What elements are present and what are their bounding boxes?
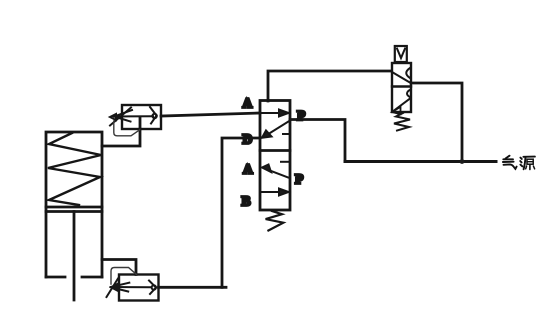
- 气: [506, 156, 510, 159]
- pilot valve manual actuator (push button): [395, 46, 407, 62]
- flow control valve V2 (one-way throttle, bottom) box: [119, 275, 159, 301]
- V1 throttle arrow (left arrowhead + diagonal): [110, 108, 132, 126]
- svg-text:A: A: [243, 162, 253, 177]
- svg-text:P: P: [295, 172, 303, 187]
- pilot valve position 2: blocked port hook: [407, 90, 411, 98]
- wire: V2 output to main valve port D: [159, 138, 261, 287]
- port label D: [243, 132, 253, 147]
- V2 check bypass loop: [111, 268, 137, 285]
- port label A (top): [243, 96, 253, 111]
- cylinder (spring-return) body: [46, 132, 102, 277]
- svg-text:B: B: [242, 194, 251, 209]
- pilot valve exhaust triangle: [392, 107, 401, 114]
- main valve position 2: P to A diagonal arrow: [262, 165, 288, 178]
- cylinder piston rod: [73, 212, 76, 301]
- port label B: [242, 194, 251, 209]
- main valve position 2: blocked port dash: [281, 161, 289, 163]
- main valve return spring: [266, 211, 284, 231]
- cylinder piston: [46, 207, 102, 212]
- wire: pilot valve output to main valve pilot port: [268, 71, 390, 101]
- pilot valve position 2: exhaust diagonal: [394, 99, 410, 111]
- wire: cylinder top port to flow valve V1 bottom port: [102, 129, 140, 146]
- V2 main flow line: [111, 286, 152, 288]
- V1 bottom port line: [139, 117, 142, 129]
- main directional valve body (two positions): [260, 101, 290, 211]
- port label A (middle): [243, 162, 253, 177]
- pilot valve return spring: [394, 113, 410, 131]
- V1 main flow line: [114, 115, 153, 117]
- V2 throttle arrow (left arrowhead + diagonal): [107, 279, 130, 298]
- air supply line: [345, 160, 496, 163]
- main valve position 1: A to P arrow: [260, 110, 289, 117]
- wire: main valve P to air supply: [290, 120, 345, 162]
- V1 check valve (ball and seat): [150, 107, 157, 124]
- main valve position 1: blocked port dash: [283, 133, 289, 135]
- air source label 气源 (drawn glyph strokes): [503, 156, 535, 170]
- junction dot: [460, 159, 465, 164]
- wire: pilot valve P port to air supply line: [411, 83, 462, 162]
- flow control valve V1 (one-way throttle, top) box: [122, 105, 161, 129]
- cylinder return spring: [48, 133, 101, 205]
- svg-text:A: A: [243, 96, 253, 111]
- port label P (top): [297, 108, 305, 123]
- main valve position 2: B arrow: [260, 189, 289, 196]
- wire: cylinder bottom port to flow valve V2: [102, 260, 136, 275]
- V1 check bypass loop: [114, 121, 140, 136]
- 源: [520, 158, 521, 159]
- wire: V1 output to main valve port A: [161, 113, 260, 116]
- port label P (bottom): [295, 172, 303, 187]
- V2 check valve (ball and seat): [149, 281, 156, 295]
- pilot valve body: [392, 63, 411, 112]
- pilot valve position 1: flow diagonal: [392, 68, 410, 82]
- main valve position 1: P to D diagonal arrow: [262, 121, 290, 138]
